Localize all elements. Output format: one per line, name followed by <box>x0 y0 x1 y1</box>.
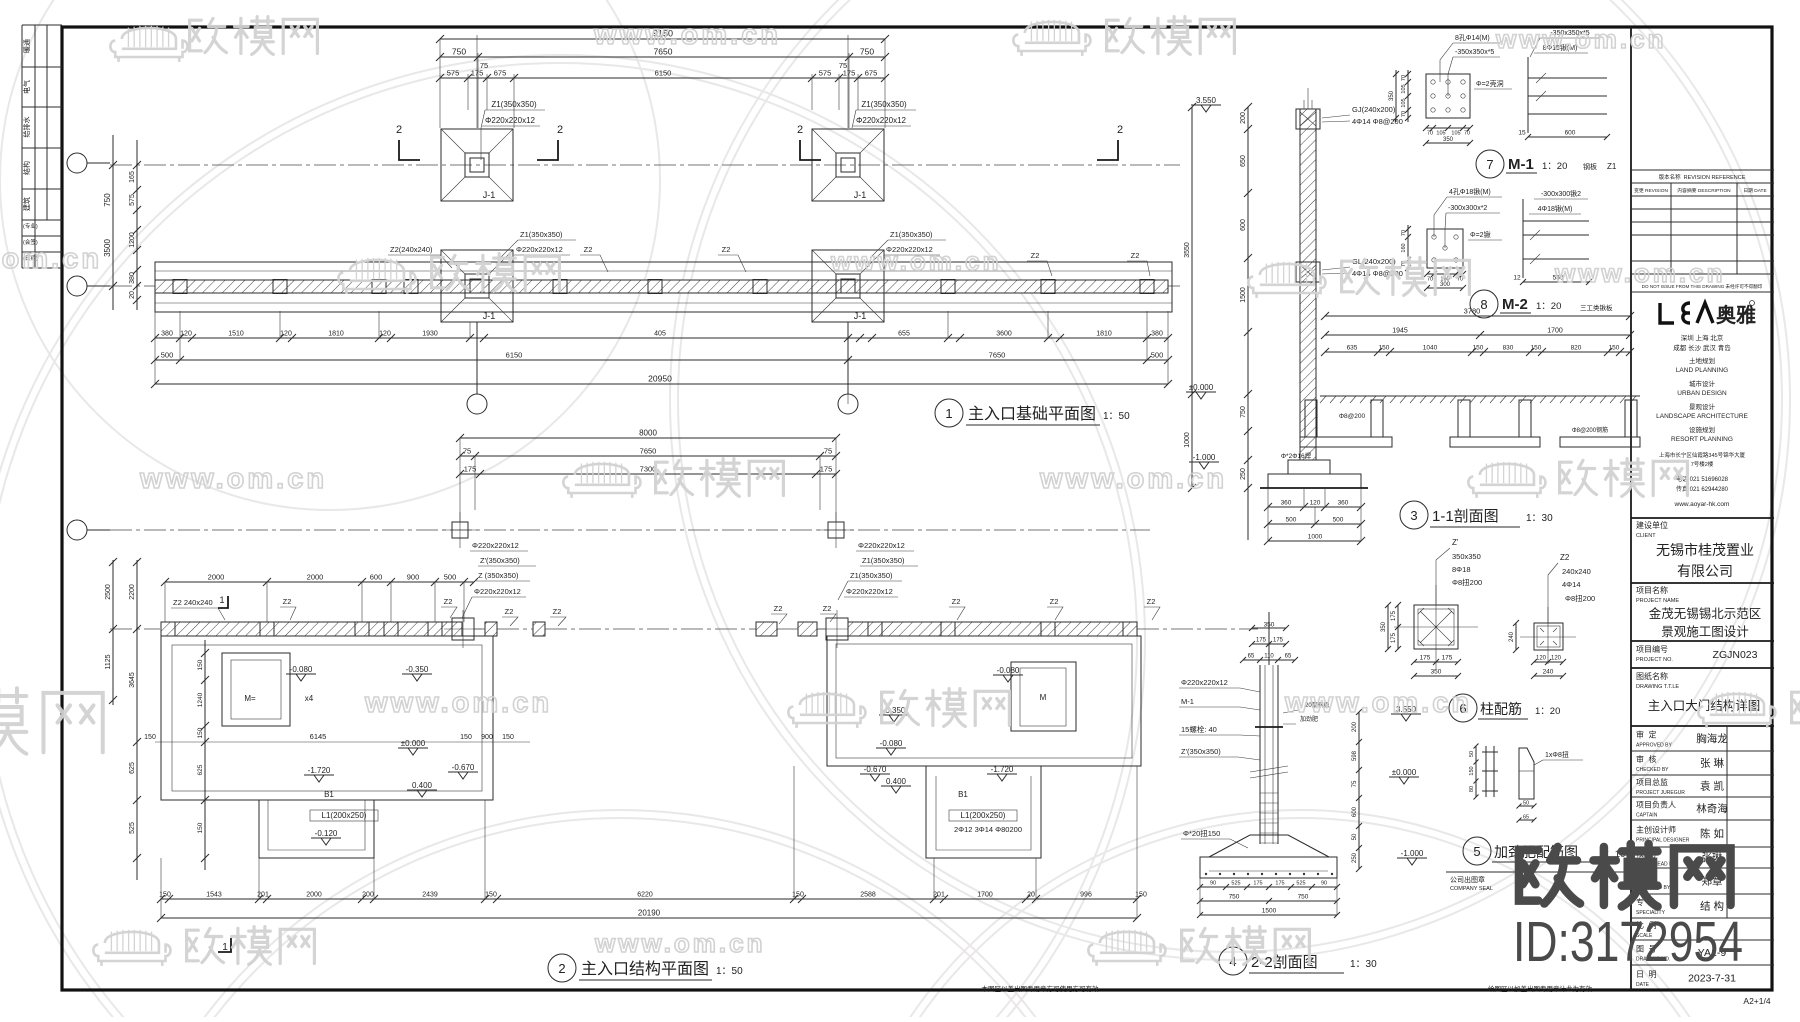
svg-text:±0.000: ±0.000 <box>1392 768 1417 777</box>
elev 3.550 <box>1191 105 1221 112</box>
M-1 bottom dims <box>1426 127 1470 129</box>
svg-text:1040: 1040 <box>1423 345 1438 352</box>
svg-text:金茂无锡锡北示范区: 金茂无锡锡北示范区 <box>1649 606 1762 621</box>
svg-text:M-1: M-1 <box>1181 697 1194 706</box>
svg-text:0.400: 0.400 <box>886 777 907 786</box>
stiffener plate trapezoid <box>1519 748 1534 799</box>
svg-text:1-1剖面图: 1-1剖面图 <box>1432 508 1499 525</box>
label 1 foundation plan title <box>935 399 963 427</box>
M-2 bottom dims <box>1427 273 1463 275</box>
svg-text:90: 90 <box>1321 881 1327 887</box>
svg-text:50: 50 <box>1352 833 1358 840</box>
svg-text:±0.000: ±0.000 <box>401 739 426 748</box>
svg-text:日期 DATE: 日期 DATE <box>1743 188 1766 194</box>
top dim 750/7650/750 <box>440 56 885 58</box>
svg-text:GL(240x200): GL(240x200) <box>1352 257 1396 266</box>
svg-text:598: 598 <box>1352 750 1358 761</box>
svg-text:2439: 2439 <box>422 892 438 899</box>
svg-text:75: 75 <box>1352 780 1358 787</box>
svg-text:525: 525 <box>129 822 136 834</box>
footing dims <box>1268 506 1361 508</box>
svg-text:1125: 1125 <box>105 654 112 669</box>
svg-text:105: 105 <box>1451 131 1460 137</box>
svg-text:6150: 6150 <box>506 351 523 360</box>
svg-text:-300x300x*2: -300x300x*2 <box>1448 205 1487 212</box>
svg-text:1xΦ8扭: 1xΦ8扭 <box>1545 750 1569 759</box>
svg-text:Φ220x220x12: Φ220x220x12 <box>472 541 519 550</box>
svg-text:175: 175 <box>1253 881 1262 887</box>
svg-text:设施规划: 设施规划 <box>1689 425 1715 434</box>
svg-text:3: 3 <box>1410 508 1417 523</box>
svg-text:审 核: 审 核 <box>1636 754 1656 764</box>
svg-text:600: 600 <box>1240 219 1247 231</box>
svg-text:2Φ12 3Φ14 Φ80200: 2Φ12 3Φ14 Φ80200 <box>954 825 1022 834</box>
svg-text:200: 200 <box>1352 721 1358 732</box>
svg-text:120: 120 <box>280 331 292 338</box>
svg-text:Z2: Z2 <box>584 245 593 254</box>
title block divider <box>1630 27 1632 990</box>
svg-text:575: 575 <box>819 69 832 78</box>
svg-text:Z (350x350): Z (350x350) <box>478 571 519 580</box>
svg-text:1930: 1930 <box>422 331 438 338</box>
curb U left <box>1305 400 1317 437</box>
svg-text:-0.120: -0.120 <box>315 829 338 838</box>
svg-text:380: 380 <box>1151 331 1163 338</box>
svg-text:1：20: 1：20 <box>1542 161 1567 172</box>
svg-text:4孔Φ18锹(M): 4孔Φ18锹(M) <box>1449 187 1491 196</box>
section 2-2 top dims <box>1252 627 1286 629</box>
svg-text:75: 75 <box>824 447 832 456</box>
svg-text:Z2: Z2 <box>1050 597 1059 606</box>
svg-text:7650: 7650 <box>989 351 1006 360</box>
svg-text:1000: 1000 <box>1308 534 1323 541</box>
svg-text:RESORT PLANNING: RESORT PLANNING <box>1671 436 1733 443</box>
svg-text:-1.720: -1.720 <box>991 765 1014 774</box>
svg-text:ZGJN023: ZGJN023 <box>1713 649 1758 661</box>
foundation J-1 left (row1) <box>441 129 513 201</box>
elevation flags left room <box>286 674 316 681</box>
svg-text:M-1: M-1 <box>1508 156 1534 173</box>
wall mid connection <box>1296 262 1320 282</box>
svg-text:1510: 1510 <box>228 331 244 338</box>
svg-text:70: 70 <box>1464 131 1470 137</box>
svg-text:Φ220x220x12: Φ220x220x12 <box>1181 678 1228 687</box>
svg-text:150: 150 <box>197 822 204 833</box>
2-2 right dim chain <box>1358 712 1360 869</box>
svg-text:Z2: Z2 <box>774 604 783 613</box>
svg-text:3645: 3645 <box>129 672 136 688</box>
svg-text:电话 021 51696028: 电话 021 51696028 <box>1676 475 1729 483</box>
svg-text:1810: 1810 <box>328 331 344 338</box>
svg-text:GJ(240x200): GJ(240x200) <box>1352 105 1396 114</box>
svg-text:Z2: Z2 <box>553 607 562 616</box>
right room extension <box>926 766 1041 858</box>
svg-text:Z1(350x350): Z1(350x350) <box>890 230 933 239</box>
svg-text:500: 500 <box>444 573 457 582</box>
M-1 left dims <box>1407 70 1409 122</box>
centerline row1 <box>110 164 1180 166</box>
svg-text:电气: 电气 <box>22 80 31 94</box>
svg-text:景观设计: 景观设计 <box>1689 402 1716 411</box>
svg-text:绘图区以加盖出图专用章计此为有效: 绘图区以加盖出图专用章计此为有效 <box>1488 984 1593 993</box>
svg-text:Z1(350x350): Z1(350x350) <box>520 230 563 239</box>
svg-text:J-1: J-1 <box>854 311 867 321</box>
svg-text:20: 20 <box>1027 892 1035 899</box>
svg-text:7: 7 <box>1486 157 1493 172</box>
plan2 dims above strip <box>165 581 474 583</box>
svg-text:www.om.cn: www.om.cn <box>0 243 102 275</box>
svg-text:350: 350 <box>1381 621 1387 632</box>
plan2 top dims 8000 <box>460 437 836 439</box>
svg-text:www.om.cn: www.om.cn <box>594 928 766 958</box>
foundation J-1 right (strip row) <box>812 250 884 322</box>
svg-text:65: 65 <box>1523 815 1529 821</box>
svg-text:Φ220x220x12: Φ220x220x12 <box>516 245 563 254</box>
svg-text:M=: M= <box>244 694 256 703</box>
svg-text:175: 175 <box>1391 610 1397 621</box>
svg-text:6145: 6145 <box>310 732 327 741</box>
2-2 footing dims <box>1200 886 1337 888</box>
svg-text:LAND PLANNING: LAND PLANNING <box>1676 367 1728 374</box>
svg-text:Φ220x220x12: Φ220x220x12 <box>858 541 905 550</box>
svg-text:8Φ18: 8Φ18 <box>1452 565 1471 574</box>
left dim chain section <box>1247 107 1249 540</box>
svg-text:65: 65 <box>1285 654 1292 660</box>
svg-text:传真 021 62944280: 传真 021 62944280 <box>1676 485 1729 493</box>
svg-text:APPROVED BY: APPROVED BY <box>1636 743 1673 749</box>
svg-text:Φ*20扭150: Φ*20扭150 <box>1183 828 1220 838</box>
column section Z2 small <box>1534 623 1563 650</box>
svg-text:www.om.cn: www.om.cn <box>593 19 781 51</box>
svg-text:2: 2 <box>557 124 563 136</box>
svg-text:土地规划: 土地规划 <box>1689 356 1715 365</box>
svg-text:750: 750 <box>1298 894 1309 901</box>
svg-text:L1(200x250): L1(200x250) <box>322 811 367 820</box>
svg-text:350: 350 <box>1443 137 1454 143</box>
svg-text:www.om.cn: www.om.cn <box>364 687 552 719</box>
svg-text:200: 200 <box>1240 112 1247 124</box>
svg-text:柱配筋: 柱配筋 <box>1480 701 1522 717</box>
svg-text:525: 525 <box>1231 881 1240 887</box>
svg-text:-350x350x*5: -350x350x*5 <box>1455 49 1494 56</box>
svg-text:2588: 2588 <box>860 892 876 899</box>
svg-text:给排水: 给排水 <box>22 117 31 138</box>
svg-text:150: 150 <box>1609 345 1620 352</box>
svg-text:750: 750 <box>103 193 112 207</box>
svg-text:B1: B1 <box>324 790 334 799</box>
svg-text:1000: 1000 <box>1184 432 1191 448</box>
svg-text:240: 240 <box>1543 669 1554 676</box>
svg-text:有限公司: 有限公司 <box>1677 563 1733 579</box>
svg-text:150: 150 <box>502 734 514 741</box>
left vertical dims plan1 <box>112 135 114 310</box>
svg-text:201: 201 <box>933 892 945 899</box>
svg-text:50: 50 <box>1523 801 1529 807</box>
svg-text:500: 500 <box>1286 517 1297 524</box>
svg-text:DATE: DATE <box>1636 982 1650 988</box>
svg-text:PROJECT JUREGUR: PROJECT JUREGUR <box>1636 790 1685 796</box>
svg-text:20190: 20190 <box>638 909 661 918</box>
curb U right <box>1458 400 1470 437</box>
svg-text:250: 250 <box>1352 852 1358 863</box>
plan2 bottom dims <box>161 898 1137 900</box>
svg-text:750: 750 <box>860 47 874 57</box>
svg-text:CLIENT: CLIENT <box>1636 533 1656 539</box>
svg-text:70: 70 <box>1401 111 1407 117</box>
column Z row3 left <box>452 522 468 538</box>
company seal area <box>1446 871 1631 873</box>
dims below plan1 row b <box>155 359 1168 361</box>
svg-text:J-1: J-1 <box>483 190 496 200</box>
label 5 stiffener title <box>1463 837 1491 865</box>
svg-text:1：20: 1：20 <box>1536 301 1561 312</box>
svg-text:105: 105 <box>1401 84 1407 93</box>
svg-text:3550: 3550 <box>1184 242 1191 258</box>
svg-text:3600: 3600 <box>996 331 1012 338</box>
svg-text:2: 2 <box>558 961 565 976</box>
svg-text:M-2: M-2 <box>1502 296 1528 313</box>
elev -1.000 <box>1189 462 1219 469</box>
svg-text:2000: 2000 <box>307 573 324 582</box>
label 8 M-2 <box>1470 290 1498 318</box>
svg-text:1：20: 1：20 <box>1535 706 1560 717</box>
svg-text:项目负责人: 项目负责人 <box>1636 800 1676 810</box>
svg-text:成都 长沙 武汉 青岛: 成都 长沙 武汉 青岛 <box>1673 343 1730 352</box>
grid circle axis row3 <box>67 520 87 540</box>
svg-text:380: 380 <box>161 331 173 338</box>
svg-text:-1.000: -1.000 <box>1401 849 1424 858</box>
svg-text:150: 150 <box>1379 345 1390 352</box>
svg-text:996: 996 <box>1080 892 1092 899</box>
svg-text:Z2: Z2 <box>823 604 832 613</box>
plan2 strip left segment <box>161 622 462 636</box>
elev 0.000 section <box>1186 392 1216 399</box>
svg-text:300: 300 <box>1440 282 1451 288</box>
dims below plan1 row a <box>155 337 1168 339</box>
svg-text:三工类锹板: 三工类锹板 <box>1580 303 1613 312</box>
svg-text:500: 500 <box>1151 351 1164 360</box>
svg-text:1500: 1500 <box>1262 908 1277 915</box>
M-2 anchor elevation <box>1523 199 1589 278</box>
svg-text:Φ220x220x12: Φ220x220x12 <box>474 587 521 596</box>
svg-text:75: 75 <box>463 447 471 456</box>
svg-text:80: 80 <box>1469 786 1475 792</box>
svg-text:本图区以盖出图专用章方可使用方可有效: 本图区以盖出图专用章方可使用方可有效 <box>982 984 1100 993</box>
svg-text:www.om.cn: www.om.cn <box>1554 258 1726 288</box>
svg-text:Z2: Z2 <box>283 597 292 606</box>
svg-text:Z2(240x240): Z2(240x240) <box>390 245 433 254</box>
svg-text:575: 575 <box>447 69 460 78</box>
svg-text:胸海龙: 胸海龙 <box>1696 732 1728 745</box>
svg-text:Φ220x220x12: Φ220x220x12 <box>485 116 536 125</box>
svg-text:Z'(350x350): Z'(350x350) <box>480 556 520 565</box>
plan2 strip main column left <box>452 618 474 640</box>
svg-text:Z2: Z2 <box>1031 251 1040 260</box>
svg-text:405: 405 <box>654 331 666 338</box>
svg-text:675: 675 <box>494 69 507 78</box>
svg-text:Φ*2Φ16焊: Φ*2Φ16焊 <box>1281 451 1312 460</box>
right planter box <box>1011 662 1076 731</box>
svg-text:175: 175 <box>1442 655 1453 662</box>
svg-text:165: 165 <box>129 171 136 183</box>
plan2 strip main column right <box>826 618 848 640</box>
svg-text:650: 650 <box>1240 155 1247 167</box>
svg-text:x4: x4 <box>305 694 314 703</box>
svg-text:150: 150 <box>1531 345 1542 352</box>
svg-text:350x350: 350x350 <box>1452 552 1481 561</box>
centerline row4 <box>110 628 1258 630</box>
grid circles below plan1 <box>467 394 487 414</box>
svg-text:600: 600 <box>1352 806 1358 817</box>
svg-text:钢板: 钢板 <box>1583 162 1597 171</box>
svg-text:675: 675 <box>865 69 878 78</box>
svg-text:500: 500 <box>161 351 174 360</box>
svg-text:Z': Z' <box>1452 538 1459 547</box>
svg-text:内容摘要 DESCRIPTION: 内容摘要 DESCRIPTION <box>1677 187 1731 194</box>
svg-text:Z2: Z2 <box>505 607 514 616</box>
svg-text:深圳 上海 北京: 深圳 上海 北京 <box>1681 333 1724 342</box>
plan2 strip middle pieces <box>485 622 497 636</box>
svg-text:PROJECT NO.: PROJECT NO. <box>1636 657 1673 663</box>
svg-text:Z2: Z2 <box>952 597 961 606</box>
svg-text:-1.720: -1.720 <box>308 766 331 775</box>
svg-text:±0.000: ±0.000 <box>1189 383 1214 392</box>
svg-text:www.om.cn: www.om.cn <box>139 463 327 495</box>
svg-text:105: 105 <box>1401 98 1407 107</box>
svg-text:8000: 8000 <box>639 429 657 438</box>
svg-text:Φ220x220x12: Φ220x220x12 <box>846 587 893 596</box>
svg-text:Φ8扭200: Φ8扭200 <box>1565 593 1595 603</box>
svg-text:1：50: 1：50 <box>1103 411 1130 422</box>
M-1 anchor elevation <box>1528 57 1607 133</box>
svg-text:5: 5 <box>1473 844 1480 859</box>
svg-text:175: 175 <box>1420 655 1431 662</box>
svg-text:750: 750 <box>1229 894 1240 901</box>
svg-text:图纸名称: 图纸名称 <box>1636 671 1668 681</box>
svg-text:-1.000: -1.000 <box>1193 453 1216 462</box>
svg-text:500: 500 <box>1333 517 1344 524</box>
svg-text:M: M <box>1040 693 1047 702</box>
svg-text:150: 150 <box>485 892 497 899</box>
svg-text:Φ=2锹: Φ=2锹 <box>1470 230 1491 239</box>
svg-text:Z2: Z2 <box>722 245 731 254</box>
svg-text:3.550: 3.550 <box>1196 96 1217 105</box>
svg-text:Z1(350x350): Z1(350x350) <box>861 100 907 109</box>
svg-text:15: 15 <box>1518 130 1526 137</box>
svg-text:150: 150 <box>1473 345 1484 352</box>
left room outer <box>161 636 493 800</box>
svg-text:暖通: 暖通 <box>22 39 31 53</box>
svg-text:Z2: Z2 <box>1560 553 1570 562</box>
svg-text:2000: 2000 <box>306 892 322 899</box>
2-2 footing <box>1209 835 1329 857</box>
svg-text:1：30: 1：30 <box>1526 513 1553 524</box>
svg-text:-0.350: -0.350 <box>406 665 429 674</box>
svg-text:J-1: J-1 <box>854 190 867 200</box>
svg-text:15螺栓: 40: 15螺栓: 40 <box>1181 724 1217 734</box>
svg-text:175: 175 <box>1391 632 1397 643</box>
svg-text:8: 8 <box>1480 297 1487 312</box>
svg-text:65: 65 <box>1248 654 1255 660</box>
beam columns plan1 <box>173 280 187 294</box>
svg-text:J-1: J-1 <box>483 311 496 321</box>
svg-text:2: 2 <box>1117 124 1123 136</box>
svg-text:www.om.cn: www.om.cn <box>830 246 1002 276</box>
svg-text:160: 160 <box>1401 243 1407 252</box>
big section crosshair and rebar X <box>1394 585 1478 669</box>
svg-text:2: 2 <box>797 124 803 136</box>
M-1 base plate <box>1426 74 1470 118</box>
column Z row3 right <box>828 522 844 538</box>
svg-text:2000: 2000 <box>208 573 225 582</box>
svg-text:70: 70 <box>1401 75 1407 81</box>
svg-text:600: 600 <box>370 573 383 582</box>
svg-text:建筑: 建筑 <box>22 197 31 211</box>
svg-text:120: 120 <box>1536 656 1547 662</box>
title block <box>1631 170 1774 988</box>
svg-text:360: 360 <box>1338 500 1349 507</box>
svg-text:陈 如: 陈 如 <box>1700 827 1724 840</box>
svg-text:Φ=2壳洞: Φ=2壳洞 <box>1476 79 1504 88</box>
svg-text:审 定: 审 定 <box>1636 730 1656 740</box>
section 1-1 wall <box>1300 109 1316 460</box>
svg-text:625: 625 <box>129 762 136 774</box>
svg-text:525: 525 <box>1296 881 1305 887</box>
svg-text:1：30: 1：30 <box>1350 959 1377 970</box>
svg-text:900: 900 <box>481 734 493 741</box>
svg-text:150: 150 <box>197 659 204 670</box>
svg-text:公司出图章: 公司出图章 <box>1450 875 1485 884</box>
svg-text:Z1: Z1 <box>1607 162 1617 171</box>
svg-text:120: 120 <box>180 331 192 338</box>
svg-text:1: 1 <box>945 406 952 421</box>
svg-text:张 琳: 张 琳 <box>1700 758 1724 770</box>
right room outer <box>827 636 1141 766</box>
2-2 elevations <box>1391 714 1421 721</box>
svg-text:0.400: 0.400 <box>412 781 433 790</box>
svg-text:Z1(350x350): Z1(350x350) <box>491 100 537 109</box>
svg-text:项目总监: 项目总监 <box>1636 777 1668 787</box>
svg-text:350: 350 <box>1389 90 1395 101</box>
svg-text:3500: 3500 <box>103 239 112 257</box>
svg-text:90: 90 <box>1210 881 1216 887</box>
svg-text:上海市长宁区仙霞路345号锦华大厦: 上海市长宁区仙霞路345号锦华大厦 <box>1659 451 1746 459</box>
label 3 section 1-1 title <box>1400 501 1428 529</box>
svg-text:380: 380 <box>129 272 136 284</box>
svg-text:ID:3172954: ID:3172954 <box>1513 910 1743 974</box>
svg-text:1200: 1200 <box>129 232 136 248</box>
svg-text:-0.080: -0.080 <box>997 666 1020 675</box>
svg-text:150: 150 <box>1469 766 1475 775</box>
svg-text:2023-7-31: 2023-7-31 <box>1688 973 1736 985</box>
svg-text:Φ220x220x12: Φ220x220x12 <box>856 116 907 125</box>
svg-text:50: 50 <box>1469 751 1475 757</box>
column break mark <box>1250 766 1288 778</box>
svg-text:575: 575 <box>129 194 136 206</box>
left planter box <box>222 653 290 726</box>
svg-text:-0.080: -0.080 <box>290 665 313 674</box>
svg-text:变更 REVISION: 变更 REVISION <box>1634 187 1668 194</box>
svg-text:CAPTAIN: CAPTAIN <box>1636 813 1658 819</box>
label 6 column reinf title <box>1449 694 1477 722</box>
column section Z big <box>1414 605 1458 649</box>
svg-text:景观施工图设计: 景观施工图设计 <box>1661 624 1749 639</box>
svg-text:DRAWING T.T.LE: DRAWING T.T.LE <box>1636 684 1679 690</box>
svg-text:6150: 6150 <box>655 69 672 78</box>
svg-text:Φ8扭200: Φ8扭200 <box>1452 577 1482 587</box>
plan2 strip right segment <box>848 622 1137 636</box>
svg-text:105: 105 <box>1436 131 1445 137</box>
